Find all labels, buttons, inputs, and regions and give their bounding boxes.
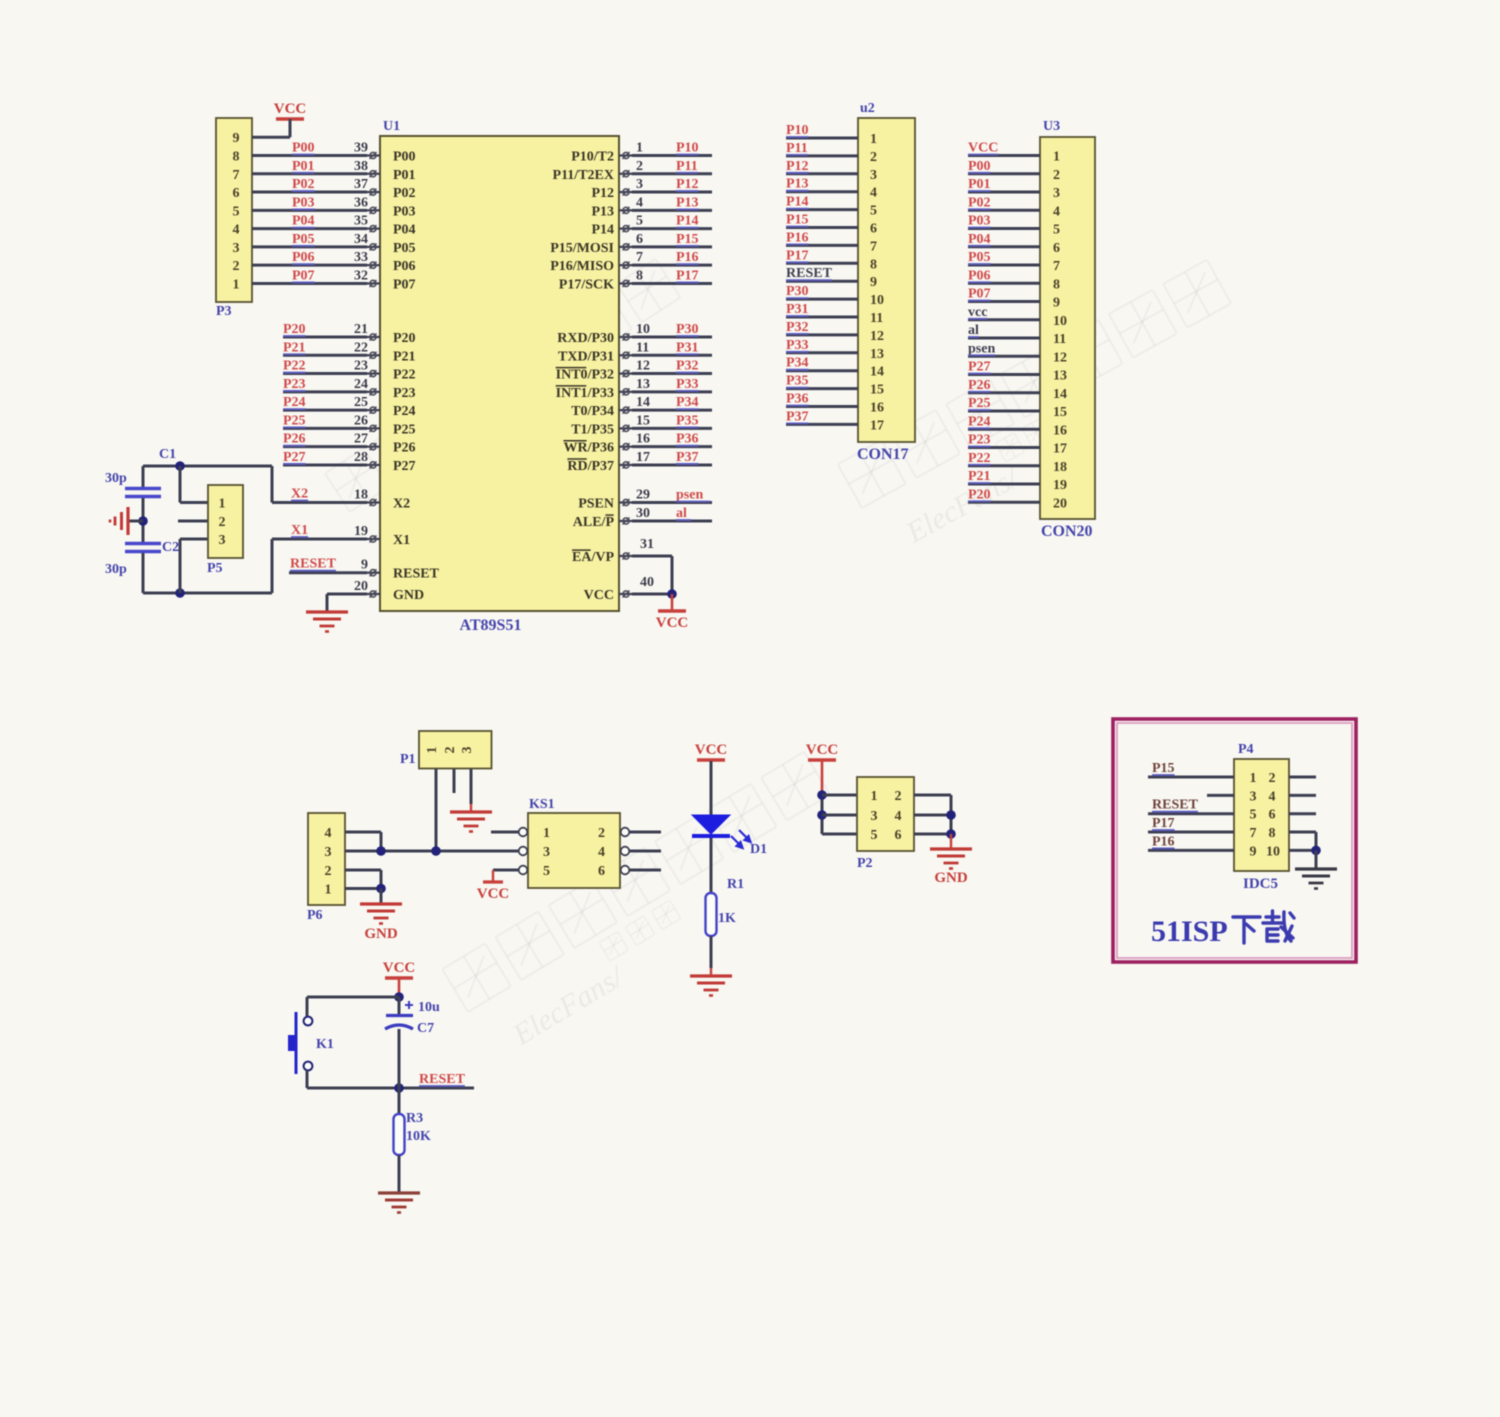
connector P4 body bbox=[1234, 759, 1289, 871]
svg-text:P26: P26 bbox=[283, 432, 306, 447]
wire net P34 to u2 pin 14 bbox=[786, 369, 858, 372]
svg-text:5: 5 bbox=[636, 214, 643, 229]
wire net X2 to U1 bbox=[272, 501, 367, 504]
svg-text:1: 1 bbox=[233, 277, 240, 292]
svg-text:P14: P14 bbox=[786, 195, 809, 210]
svg-text:P24: P24 bbox=[393, 404, 416, 419]
wire reset node to R3 bbox=[398, 1088, 401, 1114]
svg-text:P30: P30 bbox=[786, 284, 809, 299]
wire net psen from U1 bbox=[632, 501, 712, 504]
svg-text:4: 4 bbox=[636, 195, 643, 210]
svg-text:P25: P25 bbox=[968, 396, 991, 411]
svg-text:8: 8 bbox=[1053, 277, 1060, 292]
svg-text:P06: P06 bbox=[292, 250, 315, 265]
wire net al from U1 bbox=[632, 520, 712, 523]
capacitor C1 bbox=[125, 487, 161, 490]
svg-text:IDC5: IDC5 bbox=[1243, 876, 1278, 892]
svg-text:P36: P36 bbox=[676, 432, 699, 447]
svg-text:P16: P16 bbox=[676, 250, 699, 265]
wire net P05 to U3 pin 7 bbox=[968, 264, 1040, 267]
junction P2 pin3 bbox=[817, 810, 827, 820]
wire net P12 from U1 bbox=[632, 191, 712, 194]
svg-text:32: 32 bbox=[354, 268, 368, 283]
svg-text:7: 7 bbox=[1250, 826, 1257, 841]
svg-text:6: 6 bbox=[1053, 241, 1060, 256]
svg-text:4: 4 bbox=[1053, 204, 1060, 219]
wire net P13 to u2 pin 4 bbox=[786, 190, 858, 193]
svg-text:P05: P05 bbox=[968, 250, 991, 265]
wire net P07 from P3 to U1 bbox=[252, 282, 367, 285]
U1 pin stub 5 bbox=[619, 228, 632, 230]
svg-text:P35: P35 bbox=[676, 413, 699, 428]
wire U1 GND pin to ground bbox=[327, 593, 367, 596]
wire net P35 to u2 pin 15 bbox=[786, 387, 858, 390]
svg-text:P03: P03 bbox=[968, 214, 991, 229]
svg-text:P12: P12 bbox=[786, 159, 809, 174]
wire net P13 from U1 bbox=[632, 209, 712, 212]
svg-text:ALE/: ALE/ bbox=[573, 515, 607, 530]
svg-text:3: 3 bbox=[219, 533, 226, 548]
svg-text:P03: P03 bbox=[393, 204, 416, 219]
svg-text:12: 12 bbox=[636, 359, 650, 374]
svg-text:1: 1 bbox=[636, 141, 643, 156]
wire net P26 to U3 pin 14 bbox=[968, 391, 1040, 394]
svg-text:P17: P17 bbox=[676, 268, 699, 283]
wire net P16 to P4 bbox=[1148, 849, 1234, 852]
svg-text:11: 11 bbox=[636, 340, 649, 355]
svg-text:27: 27 bbox=[354, 432, 368, 447]
svg-text:P15: P15 bbox=[1152, 761, 1175, 776]
svg-text:12: 12 bbox=[1053, 350, 1067, 365]
svg-text:P37: P37 bbox=[786, 409, 809, 424]
svg-text:/P33: /P33 bbox=[587, 386, 614, 401]
svg-text:PSEN: PSEN bbox=[578, 497, 614, 512]
svg-text:5: 5 bbox=[871, 828, 878, 843]
svg-text:31: 31 bbox=[640, 537, 654, 552]
svg-text:P00: P00 bbox=[393, 150, 416, 165]
ground symbol sideways at crystal bbox=[126, 507, 129, 535]
junction P2 pin1 bbox=[817, 790, 827, 800]
svg-text:3: 3 bbox=[871, 809, 878, 824]
wire net P04 from P3 to U1 bbox=[252, 227, 367, 230]
svg-text:P03: P03 bbox=[292, 195, 315, 210]
KS1 left pin circle bbox=[519, 866, 528, 875]
wire net P11 to u2 pin 2 bbox=[786, 154, 858, 157]
svg-text:1K: 1K bbox=[718, 911, 736, 926]
wire net P10 from U1 bbox=[632, 154, 712, 157]
wire net P20 to U3 pin 20 bbox=[968, 501, 1040, 504]
junction reset node bbox=[394, 1083, 404, 1093]
svg-text:psen: psen bbox=[676, 488, 703, 503]
wire net P00 to U3 pin 2 bbox=[968, 172, 1040, 175]
svg-text:P2: P2 bbox=[857, 856, 873, 871]
svg-text:40: 40 bbox=[640, 575, 654, 590]
wire net P24 to U3 pin 16 bbox=[968, 428, 1040, 431]
svg-text:P02: P02 bbox=[968, 195, 991, 210]
svg-text:P31: P31 bbox=[786, 302, 809, 317]
U1 pin stub 24 bbox=[367, 391, 380, 393]
svg-text:2: 2 bbox=[870, 150, 877, 165]
svg-text:30p: 30p bbox=[105, 471, 127, 486]
wire net P30 to u2 pin 10 bbox=[786, 298, 858, 301]
wire P4 pin6 bbox=[1289, 812, 1316, 815]
KS1 left pin circle bbox=[519, 828, 528, 837]
wire R3 to ground bbox=[398, 1155, 401, 1193]
svg-text:P4: P4 bbox=[1238, 742, 1254, 757]
svg-text:21: 21 bbox=[354, 322, 368, 337]
svg-text:1: 1 bbox=[1053, 150, 1060, 165]
svg-text:14: 14 bbox=[636, 395, 650, 410]
power VCC at D1 bbox=[697, 758, 725, 761]
svg-text:4: 4 bbox=[325, 826, 332, 841]
KS1 left pin circle bbox=[519, 847, 528, 856]
connector P3 body bbox=[216, 118, 252, 302]
svg-text:P23: P23 bbox=[393, 386, 416, 401]
wire net P23 to U1 bbox=[283, 390, 367, 393]
svg-text:P35: P35 bbox=[786, 374, 809, 389]
svg-text:9: 9 bbox=[1053, 296, 1060, 311]
svg-text:4: 4 bbox=[1269, 789, 1276, 804]
svg-text:P17: P17 bbox=[1152, 816, 1175, 831]
svg-text:P5: P5 bbox=[207, 561, 223, 576]
svg-text:GND: GND bbox=[364, 926, 398, 942]
svg-text:5: 5 bbox=[870, 204, 877, 219]
wire P2 right rail bbox=[950, 795, 953, 834]
svg-text:P04: P04 bbox=[393, 223, 416, 238]
wire P6 to ground bbox=[380, 889, 383, 905]
wire VCC to P2 pin1 bbox=[821, 761, 824, 795]
wire net P37 from U1 bbox=[632, 463, 712, 466]
svg-text:P34: P34 bbox=[676, 395, 699, 410]
svg-text:T1/P35: T1/P35 bbox=[571, 422, 614, 437]
svg-text:P27: P27 bbox=[283, 450, 306, 465]
wire net P11 from U1 bbox=[632, 172, 712, 175]
svg-text:X1: X1 bbox=[291, 523, 308, 538]
connector P6 body bbox=[308, 813, 345, 905]
crystal connector P5 body bbox=[208, 485, 243, 558]
U1 pin stub 8 bbox=[619, 282, 632, 284]
wire net P21 to U3 pin 19 bbox=[968, 483, 1040, 486]
wire top rail to K1 bbox=[307, 996, 399, 999]
svg-text:TXD/P31: TXD/P31 bbox=[558, 349, 614, 364]
svg-text:P27: P27 bbox=[968, 360, 991, 375]
wire KS1 pin2 bbox=[630, 831, 662, 834]
svg-text:T0/P34: T0/P34 bbox=[571, 404, 614, 419]
svg-text:6: 6 bbox=[598, 864, 605, 879]
U1 pin stub 26 bbox=[367, 427, 380, 429]
wire crystal top net bbox=[143, 465, 272, 468]
svg-text:P14: P14 bbox=[591, 223, 614, 238]
svg-text:P30: P30 bbox=[676, 322, 699, 337]
wire net P31 to u2 pin 11 bbox=[786, 316, 858, 319]
svg-text:7: 7 bbox=[636, 250, 643, 265]
wire net P16 from U1 bbox=[632, 264, 712, 267]
wire KS1 pin4 bbox=[630, 850, 662, 853]
svg-text:1: 1 bbox=[325, 883, 332, 898]
svg-text:3: 3 bbox=[460, 747, 475, 754]
ground symbol at P2 bbox=[930, 847, 972, 850]
svg-text:P3: P3 bbox=[216, 304, 232, 319]
svg-text:P32: P32 bbox=[676, 359, 699, 374]
svg-text:28: 28 bbox=[354, 450, 368, 465]
wire P6 pin2 bbox=[345, 869, 381, 872]
svg-text:16: 16 bbox=[870, 401, 884, 416]
U1 pin stub 36 bbox=[367, 209, 380, 211]
wire net P16 to u2 pin 7 bbox=[786, 244, 858, 247]
svg-text:vcc: vcc bbox=[968, 305, 987, 320]
svg-text:P21: P21 bbox=[283, 340, 306, 355]
junction P2 pin6 bbox=[946, 829, 956, 839]
U1 pin stub 15 bbox=[619, 427, 632, 429]
wire P2 to ground bbox=[950, 834, 952, 849]
svg-text:4: 4 bbox=[233, 223, 240, 238]
wire net P10 to u2 pin 1 bbox=[786, 137, 858, 140]
wire net P32 to u2 pin 12 bbox=[786, 333, 858, 336]
svg-text:VCC: VCC bbox=[968, 141, 998, 156]
wire P4 pin2 bbox=[1289, 776, 1316, 779]
U1 pin stub 9 bbox=[367, 572, 380, 574]
svg-text:29: 29 bbox=[636, 488, 650, 503]
svg-text:P20: P20 bbox=[283, 322, 306, 337]
svg-text:3: 3 bbox=[1053, 186, 1060, 201]
svg-text:8: 8 bbox=[636, 268, 643, 283]
svg-text:16: 16 bbox=[636, 432, 650, 447]
svg-text:INT0: INT0 bbox=[556, 368, 588, 383]
wire KS1 pin1 bbox=[491, 831, 519, 834]
svg-text:4: 4 bbox=[598, 845, 605, 860]
U1 pin stub 10 bbox=[619, 336, 632, 338]
svg-text:P10: P10 bbox=[676, 141, 699, 156]
U1 pin stub 18 bbox=[367, 501, 380, 503]
wire net P15 from U1 bbox=[632, 245, 712, 248]
svg-text:P15/MOSI: P15/MOSI bbox=[550, 241, 614, 256]
svg-text:RESET: RESET bbox=[1152, 798, 1199, 813]
svg-text:R1: R1 bbox=[727, 877, 744, 892]
wire P1 pin3 to ground bbox=[470, 769, 473, 804]
wire net P20 to U1 bbox=[283, 336, 367, 339]
connector U3 body bbox=[1040, 137, 1095, 519]
svg-text:35: 35 bbox=[354, 214, 368, 229]
wire net P17 to u2 pin 8 bbox=[786, 262, 858, 265]
svg-text:WR: WR bbox=[563, 441, 588, 456]
wire net P04 to U3 pin 6 bbox=[968, 245, 1040, 248]
svg-text:10u: 10u bbox=[418, 1000, 440, 1015]
U1 pin stub 7 bbox=[619, 264, 632, 266]
svg-text:P06: P06 bbox=[968, 268, 991, 283]
svg-text:D1: D1 bbox=[750, 842, 767, 857]
wire net P00 from P3 to U1 bbox=[252, 154, 367, 157]
svg-text:6: 6 bbox=[1269, 808, 1276, 823]
svg-text:9: 9 bbox=[1250, 844, 1257, 859]
svg-text:P21: P21 bbox=[393, 349, 416, 364]
U1 pin stub 28 bbox=[367, 464, 380, 466]
wire net P17 to P4 bbox=[1148, 831, 1234, 834]
svg-text:P10/T2: P10/T2 bbox=[571, 150, 614, 165]
svg-text:C7: C7 bbox=[417, 1021, 434, 1036]
svg-text:RESET: RESET bbox=[786, 266, 833, 281]
svg-text:P01: P01 bbox=[292, 159, 315, 174]
svg-text:P20: P20 bbox=[968, 487, 991, 502]
wire C7 to reset node bbox=[398, 1029, 401, 1088]
U1 pin stub 11 bbox=[619, 354, 632, 356]
svg-text:VCC: VCC bbox=[656, 615, 689, 631]
svg-text:P07: P07 bbox=[393, 277, 416, 292]
svg-text:P27: P27 bbox=[393, 459, 416, 474]
wire net P31 from U1 bbox=[632, 354, 712, 357]
wire K1 bottom bbox=[306, 1070, 309, 1088]
svg-text:P1: P1 bbox=[400, 752, 416, 767]
wire net P32 from U1 bbox=[632, 372, 712, 375]
connector P1 body bbox=[419, 731, 492, 769]
svg-text:C1: C1 bbox=[159, 447, 176, 462]
power VCC symbol at U1 pin 40 bbox=[671, 594, 674, 611]
capacitor C2 bbox=[125, 542, 161, 545]
svg-text:VCC: VCC bbox=[383, 960, 416, 976]
svg-text:2: 2 bbox=[636, 159, 643, 174]
svg-text:RD: RD bbox=[567, 459, 587, 474]
junction P6 pin1 bbox=[376, 884, 386, 894]
svg-text:8: 8 bbox=[1269, 826, 1276, 841]
wire P6 pin3 bus to KS1 bbox=[345, 850, 519, 853]
svg-text:8: 8 bbox=[870, 257, 877, 272]
wire net vcc to U3 pin 10 bbox=[968, 318, 1040, 321]
svg-text:2: 2 bbox=[219, 515, 226, 530]
svg-text:2: 2 bbox=[598, 826, 605, 841]
wire net P27 to U3 pin 13 bbox=[968, 373, 1040, 376]
wire VCC down bbox=[398, 979, 401, 997]
svg-text:P12: P12 bbox=[591, 186, 614, 201]
svg-text:al: al bbox=[676, 506, 687, 521]
wire net P05 from P3 to U1 bbox=[252, 245, 367, 248]
svg-text:P37: P37 bbox=[676, 450, 699, 465]
svg-text:10: 10 bbox=[1266, 844, 1280, 859]
svg-text:K1: K1 bbox=[316, 1037, 334, 1052]
ground symbol at R1 bbox=[690, 974, 732, 977]
svg-text:P00: P00 bbox=[292, 141, 315, 156]
svg-text:3: 3 bbox=[870, 168, 877, 183]
svg-text:22: 22 bbox=[354, 340, 368, 355]
svg-text:2: 2 bbox=[443, 747, 458, 754]
wire crystal top to P5 pin1 bbox=[179, 466, 182, 503]
wire P5 pin2 stub bbox=[178, 520, 208, 523]
svg-text:5: 5 bbox=[1053, 223, 1060, 238]
svg-text:3: 3 bbox=[543, 845, 550, 860]
svg-text:10K: 10K bbox=[406, 1129, 431, 1144]
svg-text:P13: P13 bbox=[676, 195, 699, 210]
svg-text:26: 26 bbox=[354, 413, 368, 428]
wire P4 pin10 bbox=[1289, 849, 1316, 852]
svg-text:RESET: RESET bbox=[290, 557, 337, 572]
wire VCC to LED bbox=[710, 761, 713, 815]
resistor R1 bbox=[706, 893, 717, 936]
wire P2 left rail bbox=[821, 795, 824, 834]
wire net P24 to U1 bbox=[283, 409, 367, 412]
junction P6 node A bbox=[376, 846, 386, 856]
wire net P33 to u2 pin 13 bbox=[786, 351, 858, 354]
svg-text:4: 4 bbox=[870, 186, 877, 201]
svg-text:CON20: CON20 bbox=[1041, 523, 1093, 540]
wire P1 pin2 stub bbox=[453, 769, 456, 793]
wire net P03 to U3 pin 5 bbox=[968, 227, 1040, 230]
wire net P34 from U1 bbox=[632, 409, 712, 412]
wire net P03 from P3 to U1 bbox=[252, 209, 367, 212]
svg-text:6: 6 bbox=[636, 232, 643, 247]
svg-text:2: 2 bbox=[1053, 168, 1060, 183]
power VCC symbol at P3 bbox=[276, 117, 304, 120]
wire U1 VCC pin 40 bbox=[632, 593, 672, 596]
wire net psen to U3 pin 12 bbox=[968, 355, 1040, 358]
U1 pin stub 29 bbox=[619, 501, 632, 503]
svg-text:P11/T2EX: P11/T2EX bbox=[553, 168, 614, 183]
wire net RESET to P4 bbox=[1148, 812, 1234, 815]
connector P2 body bbox=[857, 777, 914, 851]
svg-text:P22: P22 bbox=[283, 359, 306, 374]
U1 pin stub 3 bbox=[619, 191, 632, 193]
capacitor C7 plus sign bbox=[405, 1001, 413, 1009]
power VCC at P2 bbox=[808, 758, 836, 761]
svg-text:14: 14 bbox=[870, 365, 884, 380]
svg-text:10: 10 bbox=[636, 322, 650, 337]
svg-text:6: 6 bbox=[870, 222, 877, 237]
wire net al to U3 pin 11 bbox=[968, 337, 1040, 340]
wire LED to R1 bbox=[710, 838, 713, 893]
junction P4 pin10 bbox=[1311, 846, 1321, 856]
svg-text:P34: P34 bbox=[786, 356, 809, 371]
power VCC at KS1 bbox=[483, 880, 503, 883]
svg-text:P22: P22 bbox=[393, 368, 416, 383]
capacitor C7 bbox=[386, 1014, 413, 1017]
svg-text:19: 19 bbox=[1053, 478, 1067, 493]
svg-text:12: 12 bbox=[870, 329, 884, 344]
svg-text:P00: P00 bbox=[968, 159, 991, 174]
svg-text:18: 18 bbox=[1053, 460, 1067, 475]
svg-text:3: 3 bbox=[636, 177, 643, 192]
U1 pin stub 13 bbox=[619, 391, 632, 393]
svg-text:7: 7 bbox=[870, 239, 877, 254]
wire P3 pin9 to VCC bbox=[252, 136, 290, 139]
U1 pin stub 6 bbox=[619, 246, 632, 248]
U1 pin stub 20 bbox=[367, 593, 380, 595]
U1 pin stub 2 bbox=[619, 173, 632, 175]
wire net P21 to U1 bbox=[283, 354, 367, 357]
wire net P15 to P4 bbox=[1148, 776, 1234, 779]
U1 pin stub 32 bbox=[367, 282, 380, 284]
U1 pin stub 30 bbox=[619, 520, 632, 522]
wire net P36 from U1 bbox=[632, 445, 712, 448]
U1 pin stub 12 bbox=[619, 372, 632, 374]
svg-text:P24: P24 bbox=[968, 414, 991, 429]
U1 pin stub 19 bbox=[367, 538, 380, 540]
svg-text:GND: GND bbox=[934, 870, 968, 886]
svg-text:KS1: KS1 bbox=[529, 797, 555, 812]
U1 pin stub 1 bbox=[619, 154, 632, 156]
svg-text:30p: 30p bbox=[105, 562, 127, 577]
svg-text:/P37: /P37 bbox=[587, 459, 614, 474]
KS1 right pin circle bbox=[621, 847, 630, 856]
wire P2 pin5 bbox=[822, 833, 857, 836]
svg-text:2: 2 bbox=[325, 864, 332, 879]
wire C1 upper lead bbox=[142, 466, 145, 487]
svg-text:24: 24 bbox=[354, 377, 368, 392]
svg-text:11: 11 bbox=[1053, 332, 1066, 347]
wire P2 pin3 bbox=[822, 814, 857, 817]
svg-text:P06: P06 bbox=[393, 259, 416, 274]
wire to ground left bbox=[128, 520, 143, 523]
svg-text:3: 3 bbox=[233, 241, 240, 256]
U1 pin stub 25 bbox=[367, 409, 380, 411]
wire bottom to P5 pin3 bbox=[179, 539, 182, 593]
svg-text:P25: P25 bbox=[393, 422, 416, 437]
